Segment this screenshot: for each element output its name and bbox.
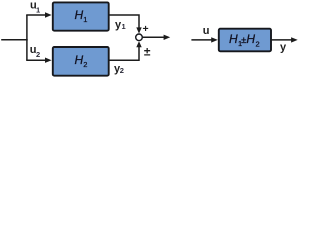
arrowhead into H2 <box>45 58 52 63</box>
svg-text:2: 2 <box>256 39 260 48</box>
arrowhead right output <box>291 37 298 42</box>
arrowhead into right block <box>211 37 218 42</box>
arrowhead down into summer <box>136 27 141 33</box>
block H1+/-H2 <box>219 29 271 52</box>
arrowhead summer output <box>164 35 171 40</box>
arrowhead up into summer <box>136 41 141 47</box>
wire: top branch into H1 <box>26 14 45 16</box>
arrowhead into H1 <box>45 12 52 17</box>
wire: right diagram output <box>271 39 291 41</box>
wire: right diagram input <box>191 39 211 41</box>
wire: H1 output to summer <box>109 14 140 29</box>
wire: main input line <box>1 39 28 41</box>
svg-text:2: 2 <box>83 60 87 69</box>
svg-text:H: H <box>75 53 84 67</box>
wire: H2 output to summer <box>109 46 140 61</box>
wire: bottom branch into H2 <box>26 59 45 61</box>
svg-text:u: u <box>203 25 210 37</box>
svg-text:1: 1 <box>83 15 87 24</box>
block H1 <box>53 2 109 30</box>
svg-text:2: 2 <box>120 66 124 75</box>
svg-text:H: H <box>229 32 238 46</box>
svg-text:H: H <box>75 8 84 22</box>
svg-text:2: 2 <box>36 50 40 59</box>
svg-text:±: ± <box>144 45 151 59</box>
summing junction <box>136 34 143 41</box>
svg-text:+: + <box>143 23 149 35</box>
svg-text:1: 1 <box>36 5 40 14</box>
wire: summer output <box>143 36 164 38</box>
svg-text:y: y <box>280 41 287 53</box>
block H2 <box>53 47 109 76</box>
svg-text:H: H <box>246 32 255 46</box>
svg-text:1: 1 <box>122 22 126 31</box>
wire: branch vertical <box>26 15 28 60</box>
